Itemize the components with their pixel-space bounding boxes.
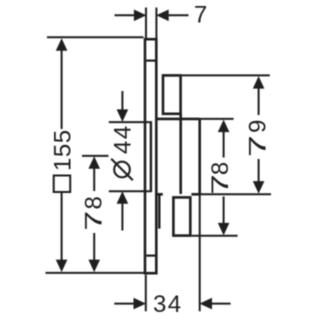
valve body internal edge	[179, 114, 182, 194]
valve body lower hidden edge	[158, 194, 160, 228]
extension line 79 bottom	[200, 193, 271, 195]
valve body bottom right segment	[191, 193, 199, 196]
label d44	[110, 124, 137, 180]
dimension 155	[56, 38, 68, 51]
extension line dim7 right	[155, 8, 157, 39]
svg-text:34: 34	[153, 291, 183, 318]
label 78 left	[80, 196, 107, 231]
svg-text:7: 7	[207, 174, 234, 195]
extension line 155/78 bottom	[46, 272, 145, 274]
dimension 7	[115, 14, 136, 16]
dimension 78 right	[218, 120, 230, 133]
extension line 78 right bottom	[192, 235, 238, 237]
dimension 78 left	[82, 155, 109, 157]
dimension 79	[253, 76, 265, 89]
extension line 78 right top	[200, 118, 234, 120]
svg-text:7: 7	[80, 211, 107, 231]
svg-text:9: 9	[244, 120, 271, 133]
plate inner edge bottom	[146, 255, 155, 257]
extension line 34 left	[145, 275, 147, 312]
valve body top edge	[156, 118, 199, 121]
label 78 right	[207, 162, 234, 195]
handle front edge	[150, 122, 152, 191]
wall plate outline	[145, 39, 156, 273]
svg-text:44: 44	[110, 124, 137, 154]
svg-text:7: 7	[244, 135, 271, 157]
extension line 79 top	[182, 74, 270, 76]
svg-text:7: 7	[194, 2, 207, 29]
valve lower stub	[173, 197, 190, 235]
valve upper stub	[163, 75, 181, 113]
extension line 155 top	[47, 36, 144, 38]
dimension 34	[114, 303, 135, 305]
plate inner edge top	[146, 59, 155, 61]
svg-text:8: 8	[207, 162, 234, 175]
valve body right edge	[198, 119, 201, 194]
svg-text:155: 155	[50, 129, 77, 171]
extension line d44 top	[109, 121, 152, 123]
label 79	[244, 120, 271, 157]
extension line 34 right	[199, 194, 201, 311]
valve body bottom left segment	[155, 193, 163, 196]
label square 155	[50, 129, 77, 192]
svg-text:8: 8	[80, 196, 107, 209]
extension line dim7 left	[145, 8, 147, 39]
dimension d44	[121, 91, 123, 111]
extension line d44 bottom	[109, 190, 152, 192]
